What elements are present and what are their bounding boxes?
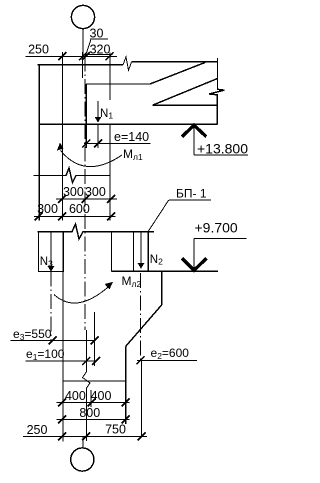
tick top 30 left xyxy=(79,52,87,60)
e=140 dim line xyxy=(84,143,151,145)
tick dC right xyxy=(138,433,146,441)
column face right mid / beam piece right xyxy=(111,232,113,272)
svg-text:N3: N3 xyxy=(40,256,53,269)
column edge at axis xyxy=(85,84,87,148)
beam wedge upper xyxy=(86,62,206,84)
lower column left face / extension xyxy=(62,232,64,442)
dim 320 underline xyxy=(88,54,113,56)
tick d2 right xyxy=(107,213,115,221)
svg-text:e1=100: e1=100 xyxy=(26,347,65,362)
e2 dim line xyxy=(137,359,197,361)
floor line mid xyxy=(34,168,111,183)
extension line 320 right upper xyxy=(109,53,111,101)
marker +13.800 pole xyxy=(193,127,195,155)
svg-text:Мл1: Мл1 xyxy=(123,147,143,162)
svg-text:250: 250 xyxy=(27,423,48,437)
extension x110 xyxy=(109,124,111,220)
force N1 arrow xyxy=(97,101,99,118)
tick e140 left xyxy=(82,140,90,148)
main axis solid extension xyxy=(85,330,87,372)
svg-text:30: 30 xyxy=(90,27,104,41)
dim line 300/300 xyxy=(56,198,117,200)
floor line +9.700 slab xyxy=(38,224,155,239)
tick d1 mid xyxy=(82,195,90,203)
svg-text:Мл2: Мл2 xyxy=(122,274,142,289)
svg-text:e2=600: e2=600 xyxy=(151,346,190,361)
svg-text:250: 250 xyxy=(28,43,49,57)
svg-text:300: 300 xyxy=(63,185,84,199)
svg-text:300: 300 xyxy=(85,185,106,199)
extension N1 to e line xyxy=(97,124,99,148)
level line +13.800 xyxy=(39,123,218,125)
svg-text:400: 400 xyxy=(91,389,112,403)
arrowhead arc M1 xyxy=(57,143,64,151)
svg-text:БП- 1: БП- 1 xyxy=(176,187,207,201)
roof line right part xyxy=(132,61,218,63)
marker +13.800 flag xyxy=(194,154,248,156)
tick d1 right xyxy=(107,195,115,203)
tick d2 left xyxy=(35,213,43,221)
top dimension line xyxy=(26,55,118,57)
upper column left face xyxy=(38,65,40,221)
svg-text:800: 800 xyxy=(79,406,100,420)
beam wedge lower xyxy=(153,79,218,106)
force N2 arrow xyxy=(140,232,142,264)
beam right edge with break jog xyxy=(209,58,225,124)
svg-text:N1: N1 xyxy=(100,108,113,121)
svg-text:N2: N2 xyxy=(150,254,163,267)
e3 dim line xyxy=(11,340,96,342)
elevation marker +9.700 arrow xyxy=(182,258,207,270)
tick d2 mid xyxy=(58,213,66,221)
tick d1 left xyxy=(58,195,66,203)
force N3 arrow xyxy=(50,232,52,267)
tick e3 right xyxy=(91,337,99,345)
tick e3 left xyxy=(49,337,57,345)
tick e2 xyxy=(137,356,145,364)
roof line left part xyxy=(38,64,124,66)
lower axis extension xyxy=(94,312,96,366)
tick dA right xyxy=(122,399,130,407)
corbel slope xyxy=(126,305,162,347)
axis extension to bottom dim xyxy=(85,389,87,442)
corbel right face xyxy=(161,271,163,305)
tick e1 left xyxy=(82,357,90,365)
extension x91 xyxy=(90,390,92,407)
crane extension line xyxy=(141,360,143,436)
extension line x62.5 xyxy=(62,52,64,221)
elevation marker +13.800 arrow xyxy=(182,125,206,137)
svg-text:750: 750 xyxy=(105,423,126,437)
marker +9.700 pole xyxy=(193,239,195,268)
axis stem bottom xyxy=(82,437,84,449)
BP-1 underline xyxy=(169,199,211,201)
tick dA mid xyxy=(88,399,96,407)
dim line 250/750 xyxy=(23,436,147,438)
svg-text:600: 600 xyxy=(69,202,90,216)
axis stem top xyxy=(82,29,84,57)
tick top 30 right xyxy=(82,52,90,60)
tick dC left xyxy=(58,433,66,441)
roof line break squiggle xyxy=(123,57,132,71)
corbel top line xyxy=(112,270,219,272)
tick dB left xyxy=(58,416,66,424)
axis circle bottom xyxy=(71,448,94,471)
svg-text:e3=550: e3=550 xyxy=(13,327,52,342)
svg-text:400: 400 xyxy=(65,389,86,403)
tick e140 right xyxy=(94,140,102,148)
svg-text:300: 300 xyxy=(37,202,58,216)
crane axis dash-dot xyxy=(140,273,142,360)
dim 30 underline xyxy=(90,38,108,40)
tick dC mid xyxy=(82,433,90,441)
dim line 300/600 xyxy=(34,216,116,218)
dim line 400/400 xyxy=(57,402,130,404)
tick top 320 right xyxy=(106,52,114,60)
dim line 800 xyxy=(57,419,130,421)
axis circle top xyxy=(71,5,94,28)
BP-1 leader xyxy=(149,200,169,231)
foundation line xyxy=(63,380,126,382)
tick dA left xyxy=(58,399,66,407)
moment arc M1 xyxy=(61,151,123,167)
moment arc M2 xyxy=(54,284,112,303)
extension line 30-left short xyxy=(82,52,84,78)
beam piece left outline xyxy=(39,232,64,272)
axis break squiggle at foundation xyxy=(83,372,91,389)
svg-text:+9.700: +9.700 xyxy=(195,220,238,236)
tick top 250 left xyxy=(58,52,66,60)
lower column right face xyxy=(125,347,127,425)
marker +9.700 flag xyxy=(194,238,247,240)
beam axis left dash-dot xyxy=(50,272,52,343)
tick e1 right xyxy=(92,357,100,365)
svg-text:+13.800: +13.800 xyxy=(197,141,248,157)
arrowhead arc M2 xyxy=(105,282,113,290)
tick dB right xyxy=(122,416,130,424)
dim 30 leader xyxy=(86,39,92,56)
svg-text:e=140: e=140 xyxy=(114,130,149,144)
e1 dim line xyxy=(26,360,98,362)
main column axis dash-dot xyxy=(84,56,86,330)
